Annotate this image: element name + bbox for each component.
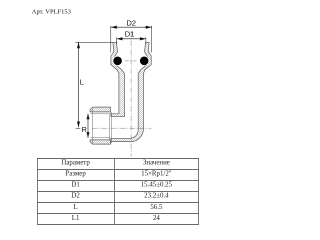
svg-text:D1: D1 xyxy=(71,182,80,189)
horizontal centerline xyxy=(92,127,151,129)
table grid xyxy=(37,159,199,225)
dimension D2 xyxy=(111,26,152,53)
svg-text:Параметр: Параметр xyxy=(61,160,90,167)
svg-text:24: 24 xyxy=(153,215,160,222)
svg-text:L: L xyxy=(80,77,84,86)
table text column 1 xyxy=(61,160,90,222)
svg-text:15.45±0.25: 15.45±0.25 xyxy=(141,182,173,189)
dimension R xyxy=(87,114,90,138)
svg-text:Арт. VPLF153: Арт. VPLF153 xyxy=(32,9,71,16)
table text column 2 xyxy=(141,160,173,222)
dimension D1 xyxy=(117,37,146,43)
svg-text:L1: L1 xyxy=(72,215,80,222)
O-ring chamber clear left xyxy=(113,56,123,66)
thread insert end lines xyxy=(108,114,110,140)
O-ring right xyxy=(140,57,149,66)
svg-text:Значение: Значение xyxy=(143,160,170,167)
step chamfer top xyxy=(110,112,112,114)
block bottom wall xyxy=(90,140,110,144)
o-ring plane centerline tick xyxy=(125,60,137,62)
svg-text:23.2±0.4: 23.2±0.4 xyxy=(144,193,169,200)
O-ring chamber clear right xyxy=(139,56,149,66)
svg-text:56.5: 56.5 xyxy=(150,204,163,211)
svg-text:15×Rp1/2″: 15×Rp1/2″ xyxy=(141,171,172,178)
fitting body: right wall + outer bend + bottom wall + block bottom wall (hatched section) xyxy=(111,42,151,141)
fitting body: left wall + top wall of horizontal branch + block top wall (hatched section) xyxy=(111,42,125,116)
vertical centerline xyxy=(130,31,132,157)
svg-text:D2: D2 xyxy=(126,18,136,27)
svg-text:D2: D2 xyxy=(71,193,80,200)
block mouth chamfer line xyxy=(91,108,93,143)
step chamfer bottom xyxy=(110,142,112,144)
svg-text:D1: D1 xyxy=(125,30,135,39)
svg-text:Размер: Размер xyxy=(65,171,86,178)
thread crest line top xyxy=(90,113,110,115)
O-ring left xyxy=(113,57,122,66)
svg-text:R: R xyxy=(82,125,87,134)
thread crest line bottom xyxy=(90,137,110,139)
dimension L xyxy=(75,42,113,128)
svg-text:L: L xyxy=(73,204,77,211)
block top wall xyxy=(90,107,110,112)
